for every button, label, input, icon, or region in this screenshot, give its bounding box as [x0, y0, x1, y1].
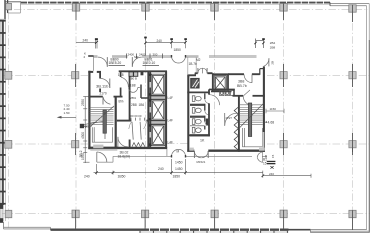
- column F1 (top-right): [349, 5, 356, 22]
- corner cluster right of block bottom: [264, 154, 275, 158]
- top-right thin wall: [330, 2, 369, 5]
- column B2 (interior): [72, 64, 79, 87]
- elevator door marks left side: [149, 82, 151, 138]
- stair S1 lower landing: [92, 127, 112, 142]
- toilet room label 强BB.7b: [237, 80, 247, 88]
- left vertical dimension line: [83, 97, 89, 164]
- column A2 (left wall mid): [5, 71, 12, 79]
- column E3 (interior): [280, 133, 287, 155]
- mid wall y134 tea room top: [188, 134, 210, 136]
- wall bottom of stair room: [88, 147, 118, 149]
- stair S2 treads: [240, 105, 263, 125]
- door arc to stair: [103, 97, 111, 105]
- dim numbers below core: [84, 161, 274, 179]
- exit door at block bottom-left: [97, 152, 107, 162]
- stair S1 treads: [90, 108, 114, 125]
- column F3 (interior right): [349, 133, 356, 155]
- hydrant symbol on grid B: [80, 124, 92, 129]
- elevator L1: [151, 74, 165, 95]
- column A3 (left wall lower): [5, 140, 12, 148]
- column D4: [211, 210, 218, 229]
- urinal area west wall: [233, 89, 235, 95]
- stall front wall: [204, 93, 206, 129]
- column D1: [211, 4, 218, 21]
- label 前室: [118, 73, 124, 104]
- stair S1 break line: [90, 106, 114, 127]
- column E1: [280, 4, 287, 21]
- svg-text:240: 240: [157, 39, 163, 43]
- machine room west wall: [129, 71, 131, 148]
- toilet fixture T3: [192, 119, 201, 125]
- svg-text:2B8: 2B8: [270, 46, 276, 50]
- dim number 240 top-left: [83, 39, 89, 43]
- leader line with arrow: [58, 116, 76, 118]
- svg-text:2550: 2550: [81, 99, 85, 106]
- svg-text:1B50: 1B50: [118, 174, 126, 178]
- toilet fixture T4: [192, 127, 201, 133]
- svg-text:L4F: L4F: [168, 141, 174, 145]
- grid line horizontal 2 (y=75.5): [2, 75, 370, 77]
- dim tick cap and slash at x96.5: [95, 38, 98, 44]
- label bottom-right exit: [263, 158, 267, 166]
- wall bottom of left block east part: [117, 147, 167, 149]
- svg-text:2400: 2400: [139, 52, 146, 56]
- grid F tick mark at core level: [352, 148, 354, 152]
- corridor top double door D2: [172, 55, 186, 63]
- text below DD1: [130, 96, 137, 100]
- svg-text:2B%: 2B%: [130, 96, 137, 100]
- svg-text:2.4: 2.4: [85, 125, 90, 129]
- floor tags next to shafts: [168, 96, 174, 145]
- tiny text in machine room: [129, 77, 137, 81]
- wall top of toilets/stair: [233, 95, 265, 97]
- column E2 (interior): [280, 64, 287, 87]
- toilet stall partition bands: [190, 104, 210, 137]
- dimension line top-left (B to core corner): [76, 40, 97, 49]
- svg-text:00 00 00: 00 00 00: [131, 114, 142, 118]
- svg-text:1B8: 1B8: [130, 84, 136, 88]
- grid line horizontal 3 (y=144): [2, 143, 370, 146]
- stall door arcs: [205, 99, 210, 126]
- svg-text:4300: 4300: [81, 132, 85, 139]
- column A1 (top-left corner): [6, 3, 12, 9]
- door arc into stair2: [243, 90, 252, 105]
- fire elevator shaft walls: [211, 73, 232, 91]
- label 机房: [130, 84, 136, 88]
- exit door arcs bottom-right of block: [257, 152, 262, 163]
- svg-text:1850: 1850: [173, 175, 181, 179]
- double bars marker: [267, 161, 276, 165]
- svg-text:300: 300: [153, 52, 158, 56]
- small note near core top-left corner: [84, 52, 87, 60]
- column F4 (bottom-right): [349, 210, 356, 230]
- toilet fixture T1: [192, 96, 201, 102]
- grid line horizontal 4 (y=212.5): [2, 213, 370, 215]
- svg-text:240: 240: [84, 175, 90, 179]
- tea room label K: [200, 139, 205, 143]
- labels at right block top-left: [189, 58, 201, 66]
- svg-text:4.68: 4.68: [268, 120, 275, 124]
- elevator L4 (fire): [214, 76, 226, 90]
- poche at left block bottom corner: [90, 145, 117, 151]
- grid line vertical D (x=214.5): [214, 10, 216, 229]
- right block west wall: [187, 75, 189, 152]
- machine room east wall: [147, 71, 149, 149]
- svg-text:240: 240: [158, 167, 164, 171]
- svg-text:1450: 1450: [175, 167, 183, 171]
- small room outline above right block: [188, 57, 196, 75]
- door arc corridor top: [209, 95, 219, 105]
- elevator L2: [151, 100, 165, 121]
- stair S1 center divider: [103, 110, 106, 133]
- svg-text:B%: B%: [119, 100, 124, 104]
- right wall double line: [367, 4, 370, 233]
- washfixture row: [220, 91, 235, 96]
- stair S2 landing: [243, 128, 263, 147]
- toilet mid wall: [208, 89, 210, 136]
- wall top of shaft zone: [119, 70, 167, 72]
- X slash marker: [270, 166, 273, 168]
- grid line vertical E (x=283.5): [283, 10, 285, 229]
- left block east wall stub to zone line: [166, 149, 168, 156]
- MST text: [226, 116, 233, 120]
- wall right of stair room: [115, 97, 117, 149]
- svg-text:1B6: 1B6: [139, 103, 145, 107]
- svg-text:1BE5.20: 1BE5.20: [109, 61, 122, 65]
- svg-text:M2: M2: [134, 55, 138, 59]
- wall vertical entry/lobby divider: [99, 72, 101, 92]
- column B3 (interior): [72, 133, 79, 155]
- svg-text:15: 15: [263, 162, 267, 166]
- svg-text:1150: 1150: [270, 107, 277, 111]
- corridor bottom double door D3: [172, 149, 186, 157]
- svg-text:2B0 B: 2B0 B: [129, 77, 137, 81]
- door arc at core top second opening: [132, 57, 142, 67]
- small duct room west of elevator: [191, 79, 199, 88]
- door arc entry room: [101, 79, 110, 89]
- second dim line right of core: [263, 174, 311, 178]
- svg-text:M: M: [177, 149, 180, 153]
- column C1: [142, 4, 149, 21]
- dim marks above lobby door: [131, 114, 142, 118]
- elevator L1/L2 separator: [151, 96, 166, 99]
- column B4: [72, 210, 79, 229]
- door arc top-right of block: [264, 58, 269, 66]
- right side short dimension: [266, 109, 284, 113]
- top curtain wall band with mullion gaps: [6, 2, 331, 5]
- grid line vertical F (x=352.5): [352, 10, 354, 229]
- column B1: [72, 4, 79, 21]
- pipe chase by mid wall: [206, 119, 209, 126]
- svg-text:3B.11b: 3B.11b: [96, 84, 109, 89]
- label 前室2: [131, 103, 144, 107]
- right block east wall: [263, 67, 265, 152]
- stair S2 break line: [240, 104, 264, 128]
- elevator L2/L3 separator: [151, 121, 166, 125]
- svg-text:2B8: 2B8: [131, 103, 137, 107]
- elevator door jamb blocks: [149, 74, 152, 146]
- right block top wall segments: [187, 69, 264, 76]
- tiny dims right of block top: [270, 41, 276, 49]
- elevator L3: [151, 125, 165, 146]
- vent marks in bottom room: [132, 143, 145, 147]
- duct fixtures in machine room top: [129, 72, 138, 76]
- svg-text:2170: 2170: [100, 92, 107, 96]
- urinal screens zigzag: [234, 106, 238, 150]
- left edge lower marks: [0, 204, 3, 223]
- elevator shaft west wall: [149, 71, 151, 148]
- svg-text:2B: 2B: [270, 61, 274, 65]
- svg-text:1BE0.10: 1BE0.10: [143, 61, 156, 65]
- wall left of left block: [88, 71, 90, 150]
- corridor door label M: [177, 149, 206, 163]
- door arc bottom room west: [118, 137, 128, 147]
- grid line vertical B (x=76): [75, 10, 77, 229]
- lobby west wall segments: [120, 71, 122, 96]
- svg-text:2B4: 2B4: [270, 41, 276, 45]
- column A4 (bottom-left): [5, 210, 12, 217]
- wall below duct room: [187, 91, 210, 93]
- bottom wall left thin segment: [4, 222, 51, 230]
- note text block left of core (leader with 3 lines): [64, 104, 70, 115]
- left wall mullion ticks: [0, 20, 6, 205]
- svg-text:MST: MST: [226, 116, 233, 120]
- svg-text:240: 240: [269, 172, 274, 176]
- svg-text:M2: M2: [196, 58, 201, 62]
- wall above washfixtures: [209, 88, 235, 90]
- stair2 west wall: [238, 96, 240, 152]
- svg-text:3B8: 3B8: [238, 80, 244, 84]
- core zone top boundary line: [88, 56, 256, 71]
- dim ticks on zone line (left block): [126, 54, 162, 59]
- bottom wall transom ticks: [140, 231, 288, 233]
- grid line vertical C (x=145.5): [145, 10, 147, 229]
- small numbers above zone line: [128, 52, 158, 56]
- tiny M2 label on zone line: [134, 55, 138, 59]
- bottom wall main band with mullion gaps: [51, 230, 311, 232]
- vertical tiny text right of exit: [270, 61, 274, 65]
- grid line vertical A (x=8.5): [8, 12, 10, 228]
- svg-text:L4F: L4F: [168, 96, 174, 100]
- left dimension numbers (rotated): [81, 99, 85, 160]
- stair S2 center divider: [248, 103, 251, 137]
- svg-text:BB.7b: BB.7b: [237, 84, 247, 88]
- door arc into east room: [244, 75, 252, 83]
- label under left block: [118, 150, 131, 158]
- column E4: [280, 210, 287, 229]
- grid line horizontal 1 (y=7.5): [14, 9, 368, 11]
- toilet fixture T2: [192, 108, 201, 114]
- svg-text:18.6(20): 18.6(20): [118, 154, 131, 158]
- double door D4 at right block top: [198, 68, 207, 73]
- level mark 4.68: [265, 120, 274, 124]
- stair S1 leader arrow: [84, 121, 104, 124]
- machine room bottom line: [129, 87, 140, 89]
- svg-text:240: 240: [83, 39, 89, 43]
- right side dim number: [270, 107, 277, 111]
- double door D5 at right block bottom: [194, 151, 208, 158]
- left wall band: [0, 0, 6, 222]
- corridor top dimension 1850: [172, 40, 186, 48]
- wall horizontal mid (above stairs): [88, 96, 122, 98]
- door arc to urinal area: [225, 113, 237, 126]
- elevator shaft east wall: [165, 71, 167, 148]
- svg-text:1450: 1450: [175, 161, 183, 165]
- lobby bottom wall jambs with ticks: [117, 118, 149, 121]
- column C4: [142, 210, 149, 229]
- double door DD1 (small): [128, 88, 137, 93]
- svg-text:1B.7b: 1B.7b: [189, 62, 198, 66]
- right block bottom wall: [187, 150, 265, 152]
- door arc lobby: [121, 77, 128, 87]
- svg-text:1K8: 1K8: [118, 73, 124, 77]
- dim slashes below core: [95, 171, 264, 177]
- svg-text:15: 15: [271, 154, 275, 158]
- door arc at core top-left entry: [98, 57, 108, 67]
- wall top of entry room: [88, 71, 101, 73]
- dim line C-to-corridor: [146, 37, 172, 55]
- corridor dim number: [174, 48, 182, 52]
- top-left corner notch: [8, 0, 21, 13]
- bottom-right thin wall segment: [311, 230, 370, 233]
- svg-text:1K: 1K: [200, 139, 205, 143]
- svg-text:1.50: 1.50: [64, 111, 70, 115]
- svg-text:1950: 1950: [81, 153, 85, 160]
- double door D1 leaves (open): [129, 122, 147, 140]
- dimension line below core: [94, 159, 264, 178]
- right end dim tick: [254, 39, 264, 49]
- thin stall partition: [190, 125, 205, 127]
- corridor dim caps and slashes: [170, 38, 187, 43]
- svg-text:1850: 1850: [174, 48, 182, 52]
- poche right block bottom: [189, 132, 264, 151]
- core zone bottom boundary line: [97, 156, 267, 162]
- svg-text:L4F: L4F: [168, 119, 174, 123]
- label lobby top-left (消防电梯厅): [109, 57, 126, 65]
- label room 消B.11b: [96, 84, 109, 96]
- svg-text:M1521: M1521: [197, 160, 206, 164]
- dark duct box: [141, 72, 144, 75]
- shaft door pocket east of machine room: [141, 85, 148, 99]
- stair S1 up-arrow: [104, 111, 106, 139]
- label lobby top-right (合用前室): [143, 57, 160, 65]
- vertical label left of block: [79, 150, 83, 157]
- column F2 (interior right): [349, 64, 356, 87]
